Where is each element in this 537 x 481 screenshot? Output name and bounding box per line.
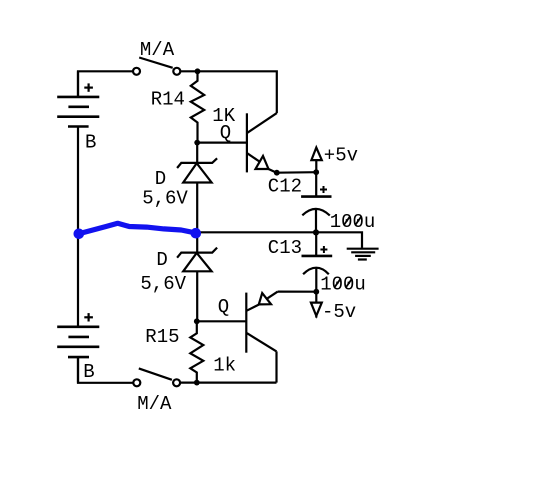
power +5v arrow <box>311 148 321 173</box>
svg-text:-5v: -5v <box>322 301 356 323</box>
wire emitter2 to -5v <box>278 291 317 293</box>
wire emitter1 to +5v <box>277 171 316 174</box>
wire left rail <box>77 127 79 327</box>
zener diode D1 <box>177 143 217 233</box>
capacitor C12 <box>301 172 331 232</box>
svg-text:100u: 100u <box>320 274 366 296</box>
svg-text:5,6V: 5,6V <box>142 188 188 210</box>
resistor R14 <box>191 71 204 142</box>
svg-text:B: B <box>85 131 96 153</box>
resistor R15 <box>190 321 203 382</box>
svg-text:B: B <box>83 361 94 383</box>
svg-text:Q: Q <box>220 122 231 144</box>
svg-text:+5v: +5v <box>324 145 358 167</box>
svg-text:C12: C12 <box>268 176 302 198</box>
zener diode D2 <box>177 232 217 321</box>
ground <box>347 249 379 260</box>
capacitor C13 plus mark <box>320 246 327 253</box>
node minus5 <box>313 289 319 295</box>
svg-text:5,6V: 5,6V <box>140 273 186 295</box>
svg-text:Q: Q <box>218 296 229 318</box>
power -5v arrow <box>311 292 322 318</box>
wire top rail <box>180 71 276 113</box>
wire base1 <box>197 142 247 144</box>
svg-text:R15: R15 <box>145 326 179 348</box>
node mid cap <box>313 229 319 235</box>
battery B1 plus label <box>84 83 93 91</box>
wire bottom rail <box>180 382 276 384</box>
node base1 <box>194 140 200 146</box>
svg-text:M/A: M/A <box>137 393 172 415</box>
svg-text:M/A: M/A <box>140 39 175 61</box>
battery B2 plus label <box>84 313 93 321</box>
svg-text:R14: R14 <box>151 88 185 110</box>
switch S2 M/A <box>133 368 180 386</box>
battery B1 <box>57 71 99 126</box>
svg-text:D: D <box>156 249 167 271</box>
transistor Q1 <box>247 113 277 173</box>
svg-text:100u: 100u <box>330 211 376 233</box>
wire base2 <box>197 320 247 322</box>
capacitor C12 plus mark <box>320 186 327 193</box>
node plus5 <box>313 169 319 175</box>
label 100u bottom zero slashes <box>334 279 352 288</box>
svg-text:C13: C13 <box>268 237 302 259</box>
node emitter1 <box>274 170 280 176</box>
node top junction <box>195 68 201 74</box>
svg-text:1k: 1k <box>213 354 236 376</box>
wire top left <box>78 71 133 97</box>
capacitor C13 <box>302 232 333 291</box>
node bottom junction <box>194 380 200 386</box>
wire marker blue <box>79 223 196 234</box>
wire bottom left <box>78 357 133 383</box>
wire mid rail <box>197 232 362 248</box>
wire marker blue end blobs <box>74 228 202 239</box>
label 100u top zero slashes <box>344 216 362 225</box>
battery B2 <box>57 327 99 383</box>
transistor Q2 <box>246 292 277 383</box>
switch S1 M/A <box>133 58 180 75</box>
node base2 <box>194 318 200 324</box>
